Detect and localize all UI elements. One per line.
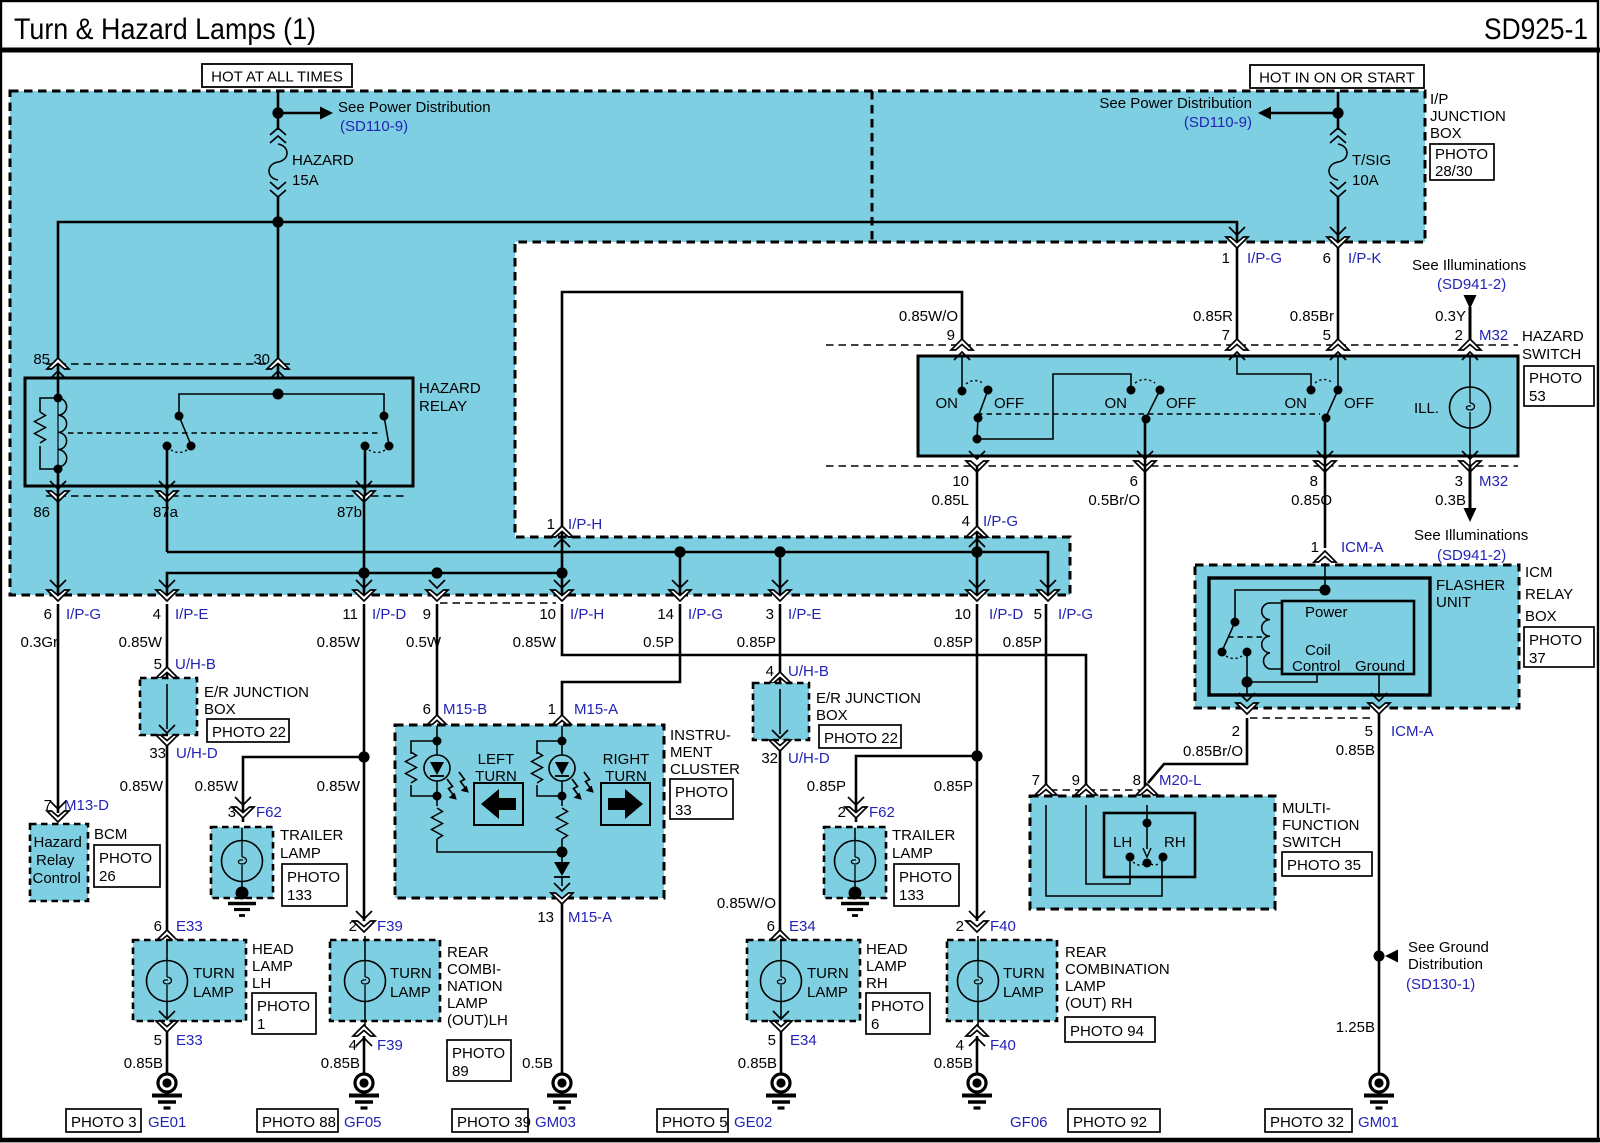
- svg-text:HAZARD: HAZARD: [292, 152, 354, 169]
- output diode: [561, 852, 563, 862]
- svg-text:PHOTO: PHOTO: [675, 784, 728, 801]
- svg-text:133: 133: [287, 887, 312, 904]
- wire 3 I/P-E down to E/R junction box RH: [779, 604, 782, 683]
- svg-text:10: 10: [954, 606, 971, 623]
- flasher ground wire: [1378, 674, 1380, 697]
- connector 33 U/H-D: [156, 725, 178, 746]
- svg-text:(SD941-2): (SD941-2): [1437, 276, 1506, 293]
- wire from flasher pin 2 to pin 8 (0.85Br/O): [1148, 718, 1247, 783]
- ground GE01: [152, 1074, 182, 1108]
- svg-text:RELAY: RELAY: [419, 398, 467, 415]
- relay shunt resistor: [40, 398, 58, 469]
- rear combination lamp LH box: [330, 940, 440, 1021]
- svg-text:0.85W: 0.85W: [119, 634, 163, 651]
- svg-text:GE01: GE01: [148, 1114, 186, 1131]
- svg-text:BOX: BOX: [204, 701, 236, 718]
- switch bottom pin dashed row: [826, 465, 1518, 467]
- instrument cluster box: [395, 725, 664, 898]
- svg-text:0.85Br/O: 0.85Br/O: [1183, 743, 1243, 760]
- svg-text:13: 13: [537, 909, 554, 926]
- svg-text:6: 6: [423, 701, 431, 718]
- svg-text:0.3Y: 0.3Y: [1435, 308, 1466, 325]
- svg-text:HAZARD: HAZARD: [419, 380, 481, 397]
- wire fuse output down to relay pin 30: [277, 222, 280, 378]
- svg-text:I/P: I/P: [1430, 91, 1448, 108]
- svg-text:LAMP: LAMP: [193, 984, 234, 1001]
- wire 0.3Gr to BCM: [57, 604, 60, 813]
- svg-text:2: 2: [956, 918, 964, 935]
- flasher unit box: [1209, 578, 1430, 695]
- svg-text:0.3Gr: 0.3Gr: [20, 634, 58, 651]
- svg-text:0.85B: 0.85B: [1336, 742, 1375, 759]
- wire 5 I/P-G down to multifunction pin 7: [1045, 604, 1048, 790]
- svg-text:PHOTO: PHOTO: [452, 1045, 505, 1062]
- wire feed bus y=222 from relay 85 column to I/P-G column: [58, 222, 1237, 378]
- wire 4 I/P-E down to E/R junction box: [166, 604, 169, 678]
- svg-text:REAR: REAR: [447, 944, 489, 961]
- svg-text:0.85W: 0.85W: [317, 634, 361, 651]
- flasher coil control wire: [1247, 674, 1317, 682]
- svg-text:MULTI-: MULTI-: [1282, 800, 1331, 817]
- svg-text:7: 7: [1222, 327, 1230, 344]
- turn signal lamp switch inner box: [1104, 813, 1195, 877]
- svg-text:0.85R: 0.85R: [1193, 308, 1233, 325]
- hazard switch SW1 box: [918, 356, 1518, 456]
- svg-text:Control: Control: [33, 870, 81, 887]
- svg-text:LEFT: LEFT: [478, 751, 515, 768]
- wire 0.5W to M15-B: [436, 604, 439, 718]
- svg-text:PHOTO 94: PHOTO 94: [1070, 1023, 1144, 1040]
- svg-text:PHOTO 92: PHOTO 92: [1073, 1114, 1147, 1131]
- svg-text:0.5P: 0.5P: [643, 634, 674, 651]
- svg-text:I/P-H: I/P-H: [568, 516, 602, 533]
- left arrow box: [474, 783, 523, 825]
- svg-text:HAZARD: HAZARD: [1522, 328, 1584, 345]
- pin 7 top: [1226, 339, 1248, 360]
- switch contacts LH/RH: [1126, 853, 1135, 862]
- svg-text:0.85L: 0.85L: [931, 492, 969, 509]
- svg-text:4: 4: [956, 1037, 964, 1054]
- svg-text:Relay: Relay: [36, 852, 75, 869]
- dashed separator between power box and I/P junction box: [871, 91, 874, 242]
- svg-text:LAMP: LAMP: [280, 845, 321, 862]
- svg-text:(SD130-1): (SD130-1): [1406, 976, 1475, 993]
- svg-text:6: 6: [1323, 250, 1331, 267]
- svg-text:F40: F40: [990, 1037, 1016, 1054]
- svg-text:See Illuminations: See Illuminations: [1414, 527, 1528, 544]
- wire 0.85W to head lamp LH: [166, 745, 169, 933]
- arrow to See Power Distribution (right): [1271, 112, 1333, 115]
- svg-text:F62: F62: [869, 804, 895, 821]
- connector 7: [1035, 784, 1057, 805]
- connector 6 M15-B: [426, 715, 448, 736]
- connector 32 U/H-D: [769, 730, 791, 751]
- pin 7 wire to RH contact: [1046, 805, 1162, 896]
- svg-text:0.85W: 0.85W: [120, 778, 164, 795]
- svg-text:See Illuminations: See Illuminations: [1412, 257, 1526, 274]
- svg-text:0.85P: 0.85P: [1003, 634, 1042, 651]
- svg-text:10: 10: [539, 606, 556, 623]
- title separator line: [0, 48, 1600, 53]
- svg-text:TURN: TURN: [1003, 965, 1045, 982]
- pin 85: [47, 358, 69, 379]
- svg-text:ON: ON: [1285, 395, 1308, 412]
- wire pin 8 down (0.85O) to flasher pin 1: [1324, 466, 1327, 548]
- head lamp RH turn bulb: [761, 961, 802, 1002]
- trailer lamp LH box: [211, 827, 273, 898]
- svg-text:PHOTO 88: PHOTO 88: [262, 1114, 336, 1131]
- relay bottom pin dashed row: [46, 495, 404, 497]
- svg-text:FUNCTION: FUNCTION: [1282, 817, 1360, 834]
- svg-text:M13-D: M13-D: [64, 797, 109, 814]
- connector 5 ICM-A at ICM box bottom: [1368, 693, 1390, 714]
- svg-text:U/H-D: U/H-D: [176, 745, 218, 762]
- ground GF05: [349, 1074, 379, 1108]
- svg-text:LAMP: LAMP: [892, 845, 933, 862]
- svg-text:E33: E33: [176, 1032, 203, 1049]
- svg-text:33: 33: [149, 745, 166, 762]
- connector 2 F62: [845, 797, 867, 818]
- svg-text:0.85P: 0.85P: [737, 634, 776, 651]
- svg-text:(OUT)LH: (OUT)LH: [447, 1012, 508, 1029]
- connector row: 10 I/P-H: [551, 580, 573, 601]
- relay top pin dashed row: [46, 363, 290, 365]
- svg-text:I/P-H: I/P-H: [570, 606, 604, 623]
- wire 0.85B to ground GE01: [166, 1031, 169, 1074]
- svg-text:3: 3: [766, 606, 774, 623]
- relay K1 box: [25, 378, 413, 486]
- svg-text:M15-A: M15-A: [568, 909, 612, 926]
- svg-text:TURN: TURN: [807, 965, 849, 982]
- switch section 2: [1127, 386, 1136, 395]
- svg-text:PHOTO 3: PHOTO 3: [71, 1114, 137, 1131]
- svg-text:GM01: GM01: [1358, 1114, 1399, 1131]
- svg-text:GF06: GF06: [1010, 1114, 1048, 1131]
- ground GE02: [766, 1074, 796, 1108]
- svg-text:M32: M32: [1479, 327, 1508, 344]
- svg-text:9: 9: [947, 327, 955, 344]
- relay coil K1: [57, 378, 60, 496]
- pin 10 bottom: [966, 451, 988, 472]
- pin 6 bottom: [1134, 451, 1156, 472]
- svg-text:PHOTO 22: PHOTO 22: [824, 730, 898, 747]
- svg-text:1: 1: [257, 1016, 265, 1033]
- svg-text:GF05: GF05: [344, 1114, 382, 1131]
- relay contact 2 (to 87b): [278, 394, 384, 416]
- svg-text:PHOTO: PHOTO: [1529, 370, 1582, 387]
- svg-text:E/R JUNCTION: E/R JUNCTION: [204, 684, 309, 701]
- wire I/P-H vertical through strip: [561, 540, 564, 595]
- svg-text:4: 4: [962, 513, 970, 530]
- head lamp LH box: [133, 940, 246, 1021]
- svg-text:PHOTO: PHOTO: [1435, 146, 1488, 163]
- connector row: 14 I/P-G: [669, 580, 691, 601]
- wire 0.85B to ground GF06: [976, 1036, 979, 1074]
- wire pin 6 down (0.5Br/O) to multifunction pin 8: [1144, 466, 1147, 790]
- connector 1 I/P-G at I/P junction box bottom: [1226, 227, 1248, 248]
- svg-text:PHOTO: PHOTO: [287, 869, 340, 886]
- pin 30: [267, 358, 289, 379]
- left turn flash marks: [447, 779, 457, 800]
- connector 13 M15-A: [551, 883, 573, 904]
- connector row: 11 I/P-D: [353, 580, 375, 601]
- left turn indicator circuit: [436, 726, 438, 741]
- connector 4 U/H-B: [769, 672, 791, 693]
- svg-text:Distribution: Distribution: [1408, 956, 1483, 973]
- node see ground distribution: [1374, 951, 1385, 962]
- right arrow box: [601, 783, 650, 825]
- svg-text:5: 5: [768, 1032, 776, 1049]
- svg-text:COMBI-: COMBI-: [447, 961, 501, 978]
- svg-text:M15-A: M15-A: [574, 701, 618, 718]
- svg-text:0.85W: 0.85W: [513, 634, 557, 651]
- svg-text:6: 6: [44, 606, 52, 623]
- trailer lamp RH ground: [849, 887, 862, 900]
- svg-text:M32: M32: [1479, 473, 1508, 490]
- svg-text:0.85W: 0.85W: [195, 778, 239, 795]
- svg-text:2: 2: [838, 804, 846, 821]
- switch section 3: [1237, 356, 1311, 390]
- svg-text:(SD941-2): (SD941-2): [1437, 547, 1506, 564]
- wire branch to trailer lamp RH connector F62: [856, 756, 977, 822]
- connector pair dashed row 7/9/8: [1050, 789, 1140, 791]
- svg-text:0.3B: 0.3B: [1435, 492, 1466, 509]
- svg-text:1: 1: [547, 516, 555, 533]
- svg-text:COMBINATION: COMBINATION: [1065, 961, 1170, 978]
- svg-text:4: 4: [349, 1037, 357, 1054]
- switch section 1: [961, 356, 963, 391]
- svg-text:TURN: TURN: [193, 965, 235, 982]
- svg-text:6: 6: [767, 918, 775, 935]
- upper bus wire: [167, 552, 1048, 595]
- flasher inner power box: [1282, 601, 1414, 674]
- svg-text:8: 8: [1310, 473, 1318, 490]
- svg-text:0.85B: 0.85B: [321, 1055, 360, 1072]
- svg-text:28/30: 28/30: [1435, 163, 1473, 180]
- svg-text:4: 4: [153, 606, 161, 623]
- flasher pin 1 feed: [1324, 563, 1326, 590]
- svg-text:0.85P: 0.85P: [807, 778, 846, 795]
- node branch to trailer lamp LH: [358, 751, 369, 762]
- wire 0.85B to ground GE02: [780, 1031, 783, 1074]
- wire from border to fuse HAZARD: [277, 92, 280, 130]
- svg-text:LAMP: LAMP: [390, 984, 431, 1001]
- head lamp RH box: [747, 940, 860, 1021]
- HOT AT ALL TIMES label box: [202, 64, 352, 87]
- svg-text:JUNCTION: JUNCTION: [1430, 108, 1506, 125]
- svg-text:NATION: NATION: [447, 978, 503, 995]
- switch linkage dashed: [977, 413, 1320, 415]
- node on upper bus to 3 I/P-E: [774, 546, 785, 557]
- svg-text:RH: RH: [1164, 834, 1186, 851]
- svg-text:I/P-G: I/P-G: [688, 606, 723, 623]
- svg-text:0.85B: 0.85B: [738, 1055, 777, 1072]
- svg-text:5: 5: [154, 1032, 162, 1049]
- svg-text:See Ground: See Ground: [1408, 939, 1489, 956]
- svg-text:HEAD: HEAD: [252, 941, 294, 958]
- svg-text:133: 133: [899, 887, 924, 904]
- svg-text:TRAILER: TRAILER: [280, 827, 344, 844]
- ground GM01: [1364, 1074, 1394, 1108]
- svg-text:ICM-A: ICM-A: [1341, 539, 1384, 556]
- connector 8 M20-L: [1136, 784, 1158, 805]
- svg-text:See Power Distribution: See Power Distribution: [338, 99, 491, 116]
- svg-text:HEAD: HEAD: [866, 941, 908, 958]
- svg-text:PHOTO: PHOTO: [257, 998, 310, 1015]
- svg-text:E34: E34: [790, 1032, 817, 1049]
- connector 6 E34: [769, 930, 791, 951]
- flasher coil: [1262, 603, 1270, 669]
- svg-text:Control: Control: [1292, 658, 1340, 675]
- svg-text:SWITCH: SWITCH: [1522, 346, 1581, 363]
- node junction fuse output: [272, 216, 283, 227]
- svg-text:Power: Power: [1305, 604, 1348, 621]
- svg-text:CLUSTER: CLUSTER: [670, 761, 740, 778]
- connector 5 U/H-B: [156, 667, 178, 688]
- wire I/P-H 10 down and right: [562, 604, 1086, 790]
- svg-text:E34: E34: [789, 918, 816, 935]
- svg-text:ILL.: ILL.: [1414, 400, 1439, 417]
- svg-text:TURN: TURN: [390, 965, 432, 982]
- svg-text:(SD110-9): (SD110-9): [340, 118, 408, 135]
- pin 2 top (M32): [1459, 339, 1481, 360]
- fuse T/SIG 10A: [1330, 128, 1346, 143]
- svg-text:LAMP: LAMP: [252, 958, 293, 975]
- wire pin 10 to bus 4 I/P-G: [976, 466, 979, 537]
- svg-text:RELAY: RELAY: [1525, 586, 1573, 603]
- connector row: 5 I/P-G: [1037, 580, 1059, 601]
- svg-text:1: 1: [1222, 250, 1230, 267]
- svg-text:0.5Br/O: 0.5Br/O: [1088, 492, 1140, 509]
- trailer lamp LH ground: [236, 887, 249, 900]
- svg-text:PHOTO 32: PHOTO 32: [1270, 1114, 1344, 1131]
- connector 1 M15-A: [551, 715, 573, 736]
- svg-text:M20-L: M20-L: [1159, 772, 1202, 789]
- wire branch to trailer lamp LH connector F62: [243, 757, 364, 822]
- svg-text:I/P-G: I/P-G: [1058, 606, 1093, 623]
- node on upper bus at hazard 10 column: [971, 546, 982, 557]
- wire pin 3 to See Illuminations: [1469, 466, 1472, 508]
- connector 9: [1075, 784, 1097, 805]
- svg-text:SWITCH: SWITCH: [1282, 834, 1341, 851]
- svg-text:5: 5: [1365, 723, 1373, 740]
- svg-text:1: 1: [1311, 539, 1319, 556]
- svg-text:OFF: OFF: [1166, 395, 1196, 412]
- svg-text:TRAILER: TRAILER: [892, 827, 956, 844]
- svg-text:6: 6: [154, 918, 162, 935]
- svg-text:3: 3: [228, 804, 236, 821]
- svg-text:REAR: REAR: [1065, 944, 1107, 961]
- svg-text:2: 2: [349, 918, 357, 935]
- svg-text:0.85Br: 0.85Br: [1290, 308, 1334, 325]
- svg-text:I/P-E: I/P-E: [175, 606, 208, 623]
- connector 4 F39: [353, 1025, 375, 1046]
- wire 0.5B to ground GM03: [561, 903, 564, 1074]
- svg-text:ICM: ICM: [1525, 564, 1553, 581]
- svg-text:I/P-G: I/P-G: [66, 606, 101, 623]
- wire fuse to feed bus: [277, 197, 280, 222]
- svg-text:BOX: BOX: [816, 707, 848, 724]
- relay linkage dashed line: [68, 432, 380, 434]
- svg-text:1.25B: 1.25B: [1336, 1019, 1375, 1036]
- node lower bus to 9: [431, 567, 442, 578]
- wire 0.85R to hazard switch pin 7: [1236, 248, 1239, 345]
- svg-text:I/P-D: I/P-D: [989, 606, 1023, 623]
- arrow to See Power Distribution (left): [283, 112, 320, 115]
- svg-text:I/P-G: I/P-G: [983, 513, 1018, 530]
- trailer lamp RH bulb: [835, 841, 876, 882]
- svg-text:Ground: Ground: [1355, 658, 1405, 675]
- svg-text:See Power Distribution: See Power Distribution: [1099, 95, 1252, 112]
- svg-text:0.85W: 0.85W: [317, 778, 361, 795]
- wire 10 I/P-D down to rear combination lamp RH: [976, 604, 979, 921]
- svg-text:LH: LH: [1113, 834, 1132, 851]
- wire 86 down through strip: [57, 496, 60, 595]
- connector 3 F62: [232, 797, 254, 818]
- svg-text:85: 85: [33, 351, 50, 368]
- svg-text:86: 86: [33, 504, 50, 521]
- svg-text:RIGHT: RIGHT: [603, 751, 650, 768]
- wire 14 I/P-G jog to M15-A: [562, 604, 680, 718]
- svg-text:MENT: MENT: [670, 744, 713, 761]
- svg-text:LAMP: LAMP: [1003, 984, 1044, 1001]
- svg-text:0.85P: 0.85P: [934, 634, 973, 651]
- svg-text:14: 14: [657, 606, 674, 623]
- wire 0.85B to ground GF05: [363, 1036, 366, 1074]
- svg-text:3: 3: [1455, 473, 1463, 490]
- svg-text:ON: ON: [936, 395, 959, 412]
- wire 14 I/P-G drop: [679, 552, 682, 595]
- svg-text:PHOTO 39: PHOTO 39: [457, 1114, 531, 1131]
- svg-text:(SD110-9): (SD110-9): [1184, 114, 1252, 131]
- wire 0.85B to ground GM01: [1378, 713, 1381, 1074]
- svg-text:LAMP: LAMP: [1065, 978, 1106, 995]
- BCM hazard relay control box: [30, 824, 88, 901]
- multifunction switch box: [1030, 796, 1275, 909]
- svg-text:8: 8: [1133, 772, 1141, 789]
- svg-text:F39: F39: [377, 1037, 403, 1054]
- svg-text:BOX: BOX: [1525, 608, 1557, 625]
- svg-text:F40: F40: [990, 918, 1016, 935]
- wire 87b down through lower bus to 11 I/P-D: [363, 496, 366, 595]
- svg-text:M15-B: M15-B: [443, 701, 487, 718]
- relay contact 1 (to 87a): [179, 394, 278, 416]
- pin 8 bottom: [1314, 451, 1336, 472]
- svg-text:89: 89: [452, 1063, 469, 1080]
- svg-text:0.85W/O: 0.85W/O: [899, 308, 958, 325]
- connector row: 9: [426, 580, 448, 601]
- wire 10 I/P-D drop: [976, 537, 979, 595]
- svg-text:U/H-D: U/H-D: [788, 750, 830, 767]
- svg-text:LAMP: LAMP: [866, 958, 907, 975]
- connector pair dashed 9-10: [440, 602, 556, 604]
- svg-text:E/R JUNCTION: E/R JUNCTION: [816, 690, 921, 707]
- svg-text:0.85O: 0.85O: [1291, 492, 1332, 509]
- connector 2 F39: [353, 911, 375, 932]
- svg-text:5: 5: [1323, 327, 1331, 344]
- svg-text:OFF: OFF: [1344, 395, 1374, 412]
- svg-text:I/P-D: I/P-D: [372, 606, 406, 623]
- connector 6 I/P-K at I/P junction box bottom: [1327, 227, 1349, 248]
- svg-text:GM03: GM03: [535, 1114, 576, 1131]
- connector row: 4 I/P-E: [156, 580, 178, 601]
- svg-text:1: 1: [548, 701, 556, 718]
- svg-text:37: 37: [1529, 650, 1546, 667]
- wire 3 I/P-E drop: [779, 552, 782, 595]
- connector 7 M13-D: [47, 801, 69, 822]
- right turn flash marks: [572, 779, 582, 800]
- svg-text:PHOTO 35: PHOTO 35: [1287, 857, 1361, 874]
